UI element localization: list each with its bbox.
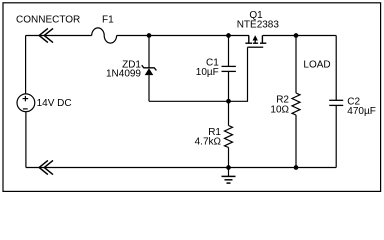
svg-text:1N4099: 1N4099 (106, 69, 141, 80)
14V DC source V1 (17, 36, 35, 168)
svg-text:14V DC: 14V DC (37, 98, 72, 109)
svg-text:470µF: 470µF (347, 106, 376, 117)
wire: top rail MOSFET to right corner (262, 35, 336, 37)
node: ZD1 top junction (147, 33, 152, 38)
capacitor C1 (222, 36, 236, 102)
ground (222, 168, 236, 184)
connector chevron bottom (39, 160, 53, 174)
source contact (261, 36, 263, 43)
svg-text:CONNECTOR: CONNECTOR (16, 15, 80, 26)
svg-text:NTE2383: NTE2383 (237, 20, 280, 31)
fuse F1 (92, 28, 117, 43)
wire: top rail left segment (26, 35, 92, 37)
wire: bottom rail (26, 167, 336, 169)
svg-text:LOAD: LOAD (303, 60, 330, 71)
body arrow head (253, 35, 258, 40)
wire: top rail fuse to MOSFET (117, 35, 249, 37)
svg-text:4.7kΩ: 4.7kΩ (195, 137, 222, 148)
connector chevron top (39, 28, 53, 42)
svg-text:10Ω: 10Ω (270, 105, 289, 116)
body contact with arrow (254, 40, 256, 43)
node: R2 top junction (294, 33, 299, 38)
node: C1 bottom / R1 top junction (226, 99, 231, 104)
transistor Q1 NTE2383 (MOSFET) (245, 36, 266, 48)
zener diode ZD1 1N4099 (142, 36, 157, 102)
resistor R1 4.7k (225, 101, 233, 167)
svg-text:F1: F1 (102, 14, 114, 25)
frame border (3, 3, 381, 192)
wire: gate rail (149, 47, 248, 101)
gate line (248, 46, 264, 48)
drain contact (248, 36, 250, 43)
node: R2 bottom junction (294, 165, 299, 170)
resistor R2 10ohm (292, 36, 300, 168)
capacitor C2 (329, 36, 343, 168)
node: C1 top junction (226, 33, 231, 38)
svg-text:10µF: 10µF (196, 67, 219, 78)
node: R1 bottom junction (226, 165, 231, 170)
